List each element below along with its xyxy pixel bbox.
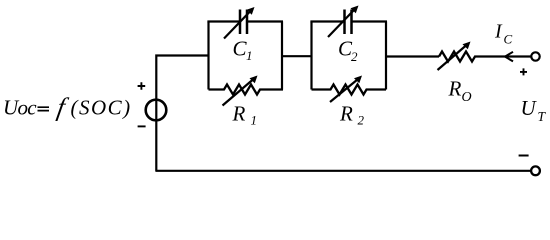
svg-text:R: R: [339, 101, 353, 125]
svg-text:O: O: [462, 90, 472, 105]
wire bottom rail: [155, 170, 531, 172]
label RO: [448, 77, 472, 105]
terminal minus sign: [519, 155, 529, 157]
wire source bottom vertical: [155, 110, 157, 171]
node box1 right edge: [281, 22, 283, 90]
svg-text:U: U: [521, 96, 538, 120]
wire between box1 and box2: [282, 55, 312, 57]
svg-text:R: R: [448, 77, 462, 101]
label IC: [494, 21, 513, 47]
terminal plus sign: [520, 68, 527, 75]
label Uoc = f(SOC): [3, 93, 132, 122]
resistor R1: [209, 85, 284, 95]
svg-text:1: 1: [251, 113, 258, 128]
resistor RO: [439, 52, 531, 62]
wire output top: [386, 55, 439, 57]
capacitor C2: [345, 10, 352, 35]
label UT: [521, 96, 547, 124]
svg-text:C: C: [504, 32, 513, 47]
svg-text:I: I: [494, 21, 503, 43]
source plus sign: [138, 82, 146, 90]
label R1: [232, 101, 258, 127]
svg-text:2: 2: [358, 113, 365, 128]
wire box1 top edge: [207, 20, 283, 22]
label R2: [339, 101, 365, 127]
voltage source Uoc: [146, 100, 167, 121]
label C1: [233, 37, 253, 63]
svg-text:2: 2: [351, 49, 358, 64]
node box1 left edge: [207, 22, 209, 90]
resistor RO variable arrow: [438, 42, 471, 71]
svg-text:R: R: [232, 101, 246, 125]
current arrow IC: [505, 52, 513, 62]
wire box2 top edge: [310, 20, 387, 22]
resistor R2: [312, 85, 387, 95]
label C2: [338, 37, 358, 65]
node box2 left edge: [310, 22, 312, 90]
resistor R2 variable arrow: [330, 76, 362, 103]
resistor R1 variable arrow: [223, 76, 258, 106]
capacitor C1: [240, 10, 247, 35]
svg-text:(SOC): (SOC): [71, 96, 132, 120]
svg-text:1: 1: [246, 48, 253, 63]
terminal negative: [531, 166, 540, 175]
terminal positive: [531, 52, 539, 60]
svg-text:Uoc: Uoc: [3, 96, 37, 120]
wire source top vertical: [156, 56, 208, 111]
capacitor C1 variable arrow: [224, 7, 255, 39]
source minus sign: [138, 125, 146, 127]
node box2 right edge: [385, 22, 387, 90]
capacitor C2 variable arrow: [328, 6, 359, 38]
